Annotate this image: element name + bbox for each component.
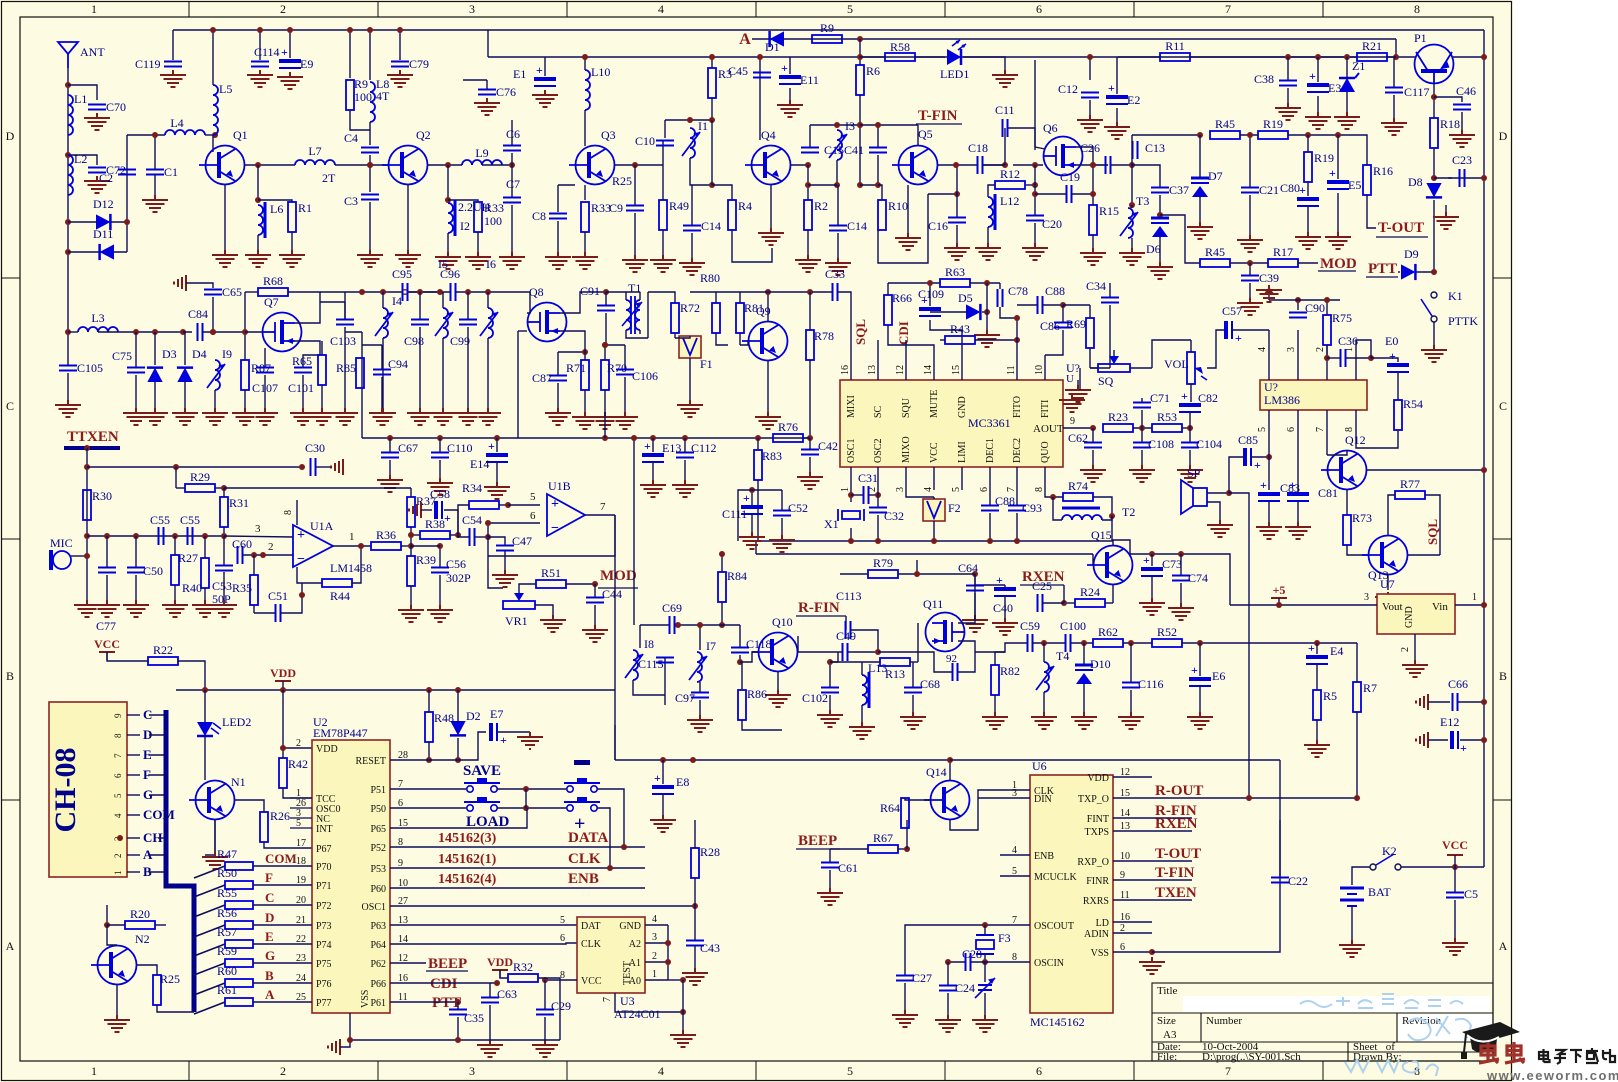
svg-text:C73: C73 xyxy=(1162,557,1182,571)
wire xyxy=(732,230,772,262)
ground xyxy=(211,600,237,617)
wire xyxy=(1401,866,1484,868)
wire xyxy=(1089,348,1091,368)
wire xyxy=(439,575,441,605)
wire xyxy=(1083,684,1085,712)
wire xyxy=(938,164,1005,166)
wire xyxy=(1131,205,1133,208)
wire xyxy=(457,738,459,760)
wire xyxy=(1182,642,1357,644)
wire xyxy=(781,490,783,510)
svg-text:R62: R62 xyxy=(1098,625,1118,639)
power flag xyxy=(174,275,186,291)
wire xyxy=(258,200,292,202)
junction xyxy=(251,552,257,558)
wire xyxy=(639,625,641,648)
svg-text:C97: C97 xyxy=(675,691,695,705)
junction xyxy=(426,687,432,693)
wire xyxy=(615,164,663,166)
svg-text:C113: C113 xyxy=(836,589,862,603)
wire xyxy=(1133,427,1152,429)
wire xyxy=(1288,134,1365,136)
wire xyxy=(381,345,383,369)
ground xyxy=(739,532,765,549)
junction xyxy=(1129,162,1135,168)
wire xyxy=(1090,367,1098,369)
wire xyxy=(767,361,769,412)
resistor R87 xyxy=(241,360,271,390)
wire xyxy=(838,292,851,355)
connector CH-08 xyxy=(49,702,127,877)
wire CLK row xyxy=(390,867,645,869)
svg-text:R35: R35 xyxy=(232,581,252,595)
svg-text:C9: C9 xyxy=(609,201,623,215)
resistor R38 xyxy=(420,517,450,539)
wire xyxy=(1326,300,1328,315)
svg-text:2: 2 xyxy=(652,951,657,962)
wire VCC top rail xyxy=(173,29,1484,31)
wire xyxy=(1102,516,1112,520)
wire antenna column xyxy=(67,68,69,362)
svg-text:5: 5 xyxy=(847,1064,853,1078)
wire xyxy=(1356,430,1398,448)
wire xyxy=(933,497,935,499)
junction xyxy=(719,551,725,557)
wire xyxy=(223,536,225,565)
zener diode Z1 xyxy=(1339,59,1365,92)
wire xyxy=(947,962,949,985)
junction xyxy=(749,487,755,493)
svg-text:+: + xyxy=(743,491,750,505)
power VCC right xyxy=(1442,838,1468,867)
wire xyxy=(1365,135,1367,165)
ground xyxy=(1295,232,1321,249)
junction xyxy=(152,132,158,138)
title block xyxy=(1152,983,1493,1061)
svg-text:E8: E8 xyxy=(676,775,689,789)
junction xyxy=(347,1037,353,1043)
wire xyxy=(757,480,759,541)
svg-text:VDD: VDD xyxy=(270,666,296,680)
wire xyxy=(545,979,577,981)
svg-text:R33100: R33100 xyxy=(484,201,504,228)
wire xyxy=(1453,56,1484,58)
svg-text:L2: L2 xyxy=(74,152,87,166)
svg-text:GND: GND xyxy=(1404,606,1415,628)
wire xyxy=(475,536,488,538)
wire xyxy=(1397,372,1399,400)
capacitor C35 xyxy=(449,1010,467,1015)
junction xyxy=(1197,132,1203,138)
svg-text:P76: P76 xyxy=(316,979,332,990)
wire bus stub R57 xyxy=(194,944,225,956)
wire xyxy=(68,85,97,100)
svg-text:E1: E1 xyxy=(513,67,526,81)
pin F CH-08 xyxy=(127,774,140,776)
wire xyxy=(135,332,137,367)
wire xyxy=(157,1005,194,1012)
wire gap eraser xyxy=(977,164,983,167)
ground xyxy=(84,176,110,193)
junction xyxy=(494,435,500,441)
svg-text:C98: C98 xyxy=(404,334,424,348)
wire xyxy=(1316,720,1318,740)
svg-text:R-OUT: R-OUT xyxy=(1155,783,1203,799)
wire xyxy=(1268,501,1270,522)
resistor R47 xyxy=(217,847,253,870)
filter F2 xyxy=(923,499,945,521)
resistor R76 xyxy=(773,420,803,442)
wire xyxy=(215,487,224,489)
ground xyxy=(1449,130,1475,147)
wire xyxy=(212,135,214,152)
capacitor C98 xyxy=(411,320,429,325)
wire second rail xyxy=(488,56,1396,58)
svg-text:C57: C57 xyxy=(1222,304,1242,318)
junction xyxy=(1266,454,1272,460)
svg-text:R83: R83 xyxy=(762,449,782,463)
wire xyxy=(869,494,878,496)
svg-text:R54: R54 xyxy=(1403,397,1423,411)
capacitor C96 xyxy=(451,283,456,301)
wire C net xyxy=(253,904,312,906)
antenna ANT xyxy=(58,42,78,68)
wire xyxy=(958,652,975,672)
junction xyxy=(210,329,216,335)
wire xyxy=(1297,300,1299,310)
wire xyxy=(1327,450,1347,455)
capacitor C24 xyxy=(939,986,957,991)
svg-text:U6: U6 xyxy=(1032,759,1047,773)
wire xyxy=(67,362,69,365)
wire xyxy=(538,978,560,1040)
wire xyxy=(1093,497,1112,516)
wire xyxy=(859,95,861,185)
wire xyxy=(982,311,987,313)
wire xyxy=(808,184,837,186)
junction xyxy=(65,152,71,158)
battery BAT xyxy=(1340,888,1364,906)
wire xyxy=(137,965,157,975)
ground xyxy=(755,412,781,429)
wire xyxy=(1346,57,1348,78)
svg-text:ADIN: ADIN xyxy=(1084,929,1109,940)
junction xyxy=(1324,297,1330,303)
wire xyxy=(898,573,975,575)
capacitor C115 xyxy=(656,658,674,663)
wire xyxy=(1199,197,1201,222)
svg-text:C19: C19 xyxy=(1060,170,1080,184)
svg-text:8: 8 xyxy=(1034,487,1045,492)
svg-text:B: B xyxy=(265,968,274,983)
capacitor C2 xyxy=(99,170,136,186)
svg-text:FITO: FITO xyxy=(1012,396,1023,418)
wire xyxy=(557,185,559,212)
svg-text:R82: R82 xyxy=(1000,664,1020,678)
junction xyxy=(367,162,373,168)
junction xyxy=(173,464,179,470)
wire xyxy=(68,155,97,165)
ground xyxy=(1375,592,1401,609)
wire xyxy=(1026,184,1035,186)
capacitor C118 xyxy=(731,648,749,653)
wire VDD rail xyxy=(176,689,615,691)
wire xyxy=(614,725,616,760)
svg-text:TXEN: TXEN xyxy=(1155,885,1197,901)
junction xyxy=(631,435,637,441)
inductor I4 xyxy=(375,308,393,338)
resistor R2 xyxy=(804,199,828,230)
wire xyxy=(1152,820,1280,952)
resistor R83 xyxy=(754,450,762,480)
svg-text:C11: C11 xyxy=(995,103,1015,117)
svg-text:P67: P67 xyxy=(316,844,332,855)
capacitor C60 xyxy=(238,546,243,564)
wire F net xyxy=(253,884,312,886)
junction xyxy=(1178,551,1184,557)
wire xyxy=(1337,135,1339,179)
wire bus entry xyxy=(149,714,166,716)
svg-text:C106: C106 xyxy=(632,369,658,383)
junction xyxy=(505,502,511,508)
button down xyxy=(564,797,600,811)
wire xyxy=(264,348,266,367)
svg-text:DEC1: DEC1 xyxy=(985,438,996,463)
svg-text:C60: C60 xyxy=(232,537,252,551)
svg-text:U: U xyxy=(1066,373,1074,385)
svg-text:P63: P63 xyxy=(370,921,386,932)
svg-text:C108: C108 xyxy=(1148,437,1174,451)
wire xyxy=(956,194,958,217)
capacitor C38 xyxy=(1254,72,1297,86)
junction xyxy=(1061,600,1067,606)
pin 8 LM386 xyxy=(1355,410,1357,440)
power flag xyxy=(1416,694,1428,710)
wire bus stub R56 xyxy=(194,925,225,937)
resistor R73 xyxy=(1343,515,1351,545)
junction xyxy=(1090,191,1096,197)
svg-text:5: 5 xyxy=(296,818,301,829)
svg-text:7: 7 xyxy=(1225,2,1231,16)
wire xyxy=(390,982,497,984)
junction xyxy=(437,435,443,441)
junction xyxy=(1481,54,1487,60)
svg-text:1: 1 xyxy=(91,1064,97,1078)
wire xyxy=(1118,56,1160,58)
resistor R40 xyxy=(201,558,209,588)
diode D4 xyxy=(177,368,193,382)
junction xyxy=(84,553,90,559)
capacitor C5 xyxy=(1446,893,1464,898)
capacitor C55a xyxy=(159,527,164,545)
svg-text:R45: R45 xyxy=(1215,117,1235,131)
wire xyxy=(1063,585,1065,603)
svg-text:C23: C23 xyxy=(1452,153,1472,167)
junction xyxy=(602,342,608,348)
wire xyxy=(1132,134,1200,136)
wire xyxy=(662,760,664,784)
junction xyxy=(857,182,863,188)
svg-text:R79: R79 xyxy=(873,556,893,570)
svg-text:7: 7 xyxy=(602,997,613,1002)
wire xyxy=(1076,164,1093,166)
ground xyxy=(677,400,703,417)
capacitor C47 xyxy=(496,546,514,551)
junction xyxy=(692,903,698,909)
svg-text:C82: C82 xyxy=(1198,391,1218,405)
junction xyxy=(582,54,588,60)
wire xyxy=(983,164,1005,166)
wire xyxy=(557,221,559,252)
svg-text:C93: C93 xyxy=(1022,501,1042,515)
filter F1 xyxy=(679,336,701,358)
wire xyxy=(1199,686,1201,712)
wire xyxy=(1190,340,1192,352)
varicap D6 xyxy=(1151,218,1169,237)
junction xyxy=(953,162,959,168)
wire xyxy=(68,221,127,223)
wire xyxy=(458,505,469,535)
wire xyxy=(633,680,665,695)
IC U? MC3361 xyxy=(840,380,1063,467)
wire xyxy=(918,652,952,672)
wire xyxy=(369,130,371,145)
junction xyxy=(202,687,208,693)
wire xyxy=(594,605,596,625)
varicap D7 xyxy=(1191,178,1209,197)
pin B CH-08 xyxy=(127,871,140,873)
crystal X1 xyxy=(838,509,864,521)
wire xyxy=(1395,39,1397,57)
wire xyxy=(791,164,808,166)
wire xyxy=(711,120,713,185)
wire xyxy=(648,292,675,303)
svg-text:F3: F3 xyxy=(998,931,1011,945)
wire xyxy=(68,331,78,333)
capacitor C4 xyxy=(344,131,379,153)
svg-text:R24: R24 xyxy=(1080,585,1100,599)
svg-text:C101: C101 xyxy=(288,381,314,395)
wire xyxy=(557,383,559,408)
svg-text:R45: R45 xyxy=(1205,245,1225,259)
junction xyxy=(387,435,393,441)
svg-text:+: + xyxy=(297,528,305,543)
wire xyxy=(807,165,809,200)
wire xyxy=(594,584,596,597)
wire xyxy=(527,292,530,313)
diode D11 xyxy=(93,227,114,260)
resistor R32 xyxy=(508,960,538,982)
svg-text:P71: P71 xyxy=(316,881,332,892)
capacitor C95 redraw xyxy=(403,283,408,301)
svg-text:C31: C31 xyxy=(858,471,878,485)
capacitor C68 xyxy=(904,688,922,693)
svg-text:7: 7 xyxy=(600,501,606,513)
wire xyxy=(511,165,513,197)
svg-text:C94: C94 xyxy=(388,357,408,371)
pin 2 LM386 xyxy=(1326,345,1328,380)
junction xyxy=(1090,162,1096,168)
wire xyxy=(253,555,255,575)
wire xyxy=(715,292,717,303)
wire xyxy=(711,98,713,120)
wire xyxy=(1016,513,1018,540)
junction xyxy=(1354,795,1360,801)
junction xyxy=(287,27,293,33)
svg-text:1: 1 xyxy=(652,969,657,980)
transistor Q3 xyxy=(569,128,616,185)
junction xyxy=(1187,425,1193,431)
svg-text:C71: C71 xyxy=(1150,391,1170,405)
wire xyxy=(369,30,371,80)
junction xyxy=(417,289,423,295)
svg-text:SQ: SQ xyxy=(1098,374,1114,388)
svg-text:R7: R7 xyxy=(1363,681,1377,695)
capacitor E14 xyxy=(486,439,508,462)
capacitor E0 xyxy=(1387,349,1409,372)
wire xyxy=(1151,576,1153,598)
wire xyxy=(488,537,505,545)
capacitor C78 xyxy=(998,289,1003,307)
wire xyxy=(1297,330,1299,345)
capacitor C39 xyxy=(1241,271,1279,285)
wire xyxy=(860,124,918,126)
ground xyxy=(435,252,461,269)
wire xyxy=(694,878,696,906)
capacitor C32 xyxy=(869,508,887,513)
wire xyxy=(584,57,586,70)
transistor Q14 xyxy=(924,765,970,820)
capacitor C76 xyxy=(478,85,516,99)
svg-text:C63: C63 xyxy=(497,987,517,1001)
svg-text:T-OUT: T-OUT xyxy=(1378,220,1424,236)
wire xyxy=(457,690,459,722)
wire xyxy=(1346,490,1348,515)
svg-text:R30: R30 xyxy=(92,489,112,503)
ground xyxy=(1305,112,1331,129)
junction xyxy=(757,54,763,60)
junction xyxy=(280,745,286,751)
resistor R60 xyxy=(217,964,253,987)
wire xyxy=(1109,283,1111,297)
ground xyxy=(499,252,525,269)
wire B net xyxy=(253,982,312,984)
wire xyxy=(1016,318,1018,355)
wire xyxy=(155,924,166,926)
capacitor C114 xyxy=(251,45,280,67)
svg-text:R69: R69 xyxy=(1066,317,1086,331)
ground xyxy=(962,615,988,632)
wire xyxy=(410,586,412,605)
svg-text:3: 3 xyxy=(895,487,906,492)
svg-text:C5: C5 xyxy=(1464,887,1478,901)
wire xyxy=(1079,368,1081,390)
wire xyxy=(259,30,261,60)
wire bus entry xyxy=(149,871,166,873)
svg-text:+: + xyxy=(1143,553,1150,567)
svg-text:L5: L5 xyxy=(219,82,232,96)
wire xyxy=(511,153,513,165)
svg-text:E2: E2 xyxy=(1127,93,1140,107)
inductor T4 xyxy=(1036,662,1054,692)
wire T-FIN underline xyxy=(916,123,962,125)
svg-text:R2: R2 xyxy=(814,199,828,213)
wire xyxy=(1072,193,1093,195)
junction xyxy=(1285,54,1291,60)
wire xyxy=(450,534,458,536)
capacitor C83b xyxy=(1287,478,1309,501)
wire xyxy=(1326,345,1328,358)
